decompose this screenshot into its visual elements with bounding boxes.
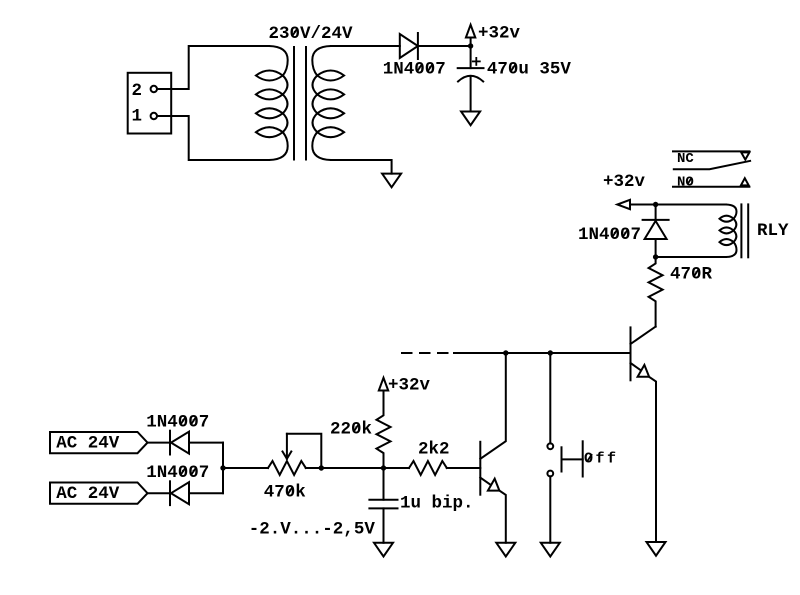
label 1N4007 (D1) — [383, 60, 446, 80]
transistor Q2 collector — [631, 327, 656, 344]
switch contact circle (top) — [547, 443, 553, 449]
svg-text:1N4007: 1N4007 — [578, 225, 641, 245]
junction dot (diode D4 bottom) — [653, 254, 658, 259]
+32v supply arrow (bottom) — [379, 378, 388, 394]
wire pot to main node — [306, 467, 384, 469]
svg-text:1N4007: 1N4007 — [146, 463, 209, 483]
svg-text:NO: NO — [677, 174, 694, 190]
transistor Q1 base bar — [479, 442, 481, 495]
svg-text:1N4007: 1N4007 — [146, 412, 209, 432]
diode D1 1N4007 (pointing right) — [400, 33, 418, 59]
wire D3 up to junction — [222, 468, 224, 493]
svg-text:1: 1 — [132, 107, 143, 127]
wire junction to pot — [223, 467, 268, 469]
connector X1 body — [128, 73, 172, 134]
junction dot (diode join) — [220, 465, 225, 470]
label 470k — [264, 482, 306, 502]
flag AC 24V (lower) — [50, 483, 148, 504]
potentiometer 470k zigzag — [268, 461, 306, 475]
svg-text:1u bip.: 1u bip. — [400, 494, 474, 514]
node +32v junction dot — [468, 43, 473, 48]
relay contact common arm — [674, 161, 750, 169]
label RLY — [757, 221, 789, 241]
svg-text:RLY: RLY — [757, 221, 789, 241]
label 1u bip. — [400, 494, 474, 514]
ground (transformer secondary) — [382, 174, 401, 188]
wire rail to Q2 base — [454, 352, 631, 354]
capacitor C1 470u 35V (polarized) — [458, 46, 484, 112]
wire D2 down to junction — [222, 443, 224, 468]
transistor Q1 emitter — [480, 478, 506, 543]
junction dot (diode D4 top) — [653, 202, 658, 207]
svg-text:+32v: +32v — [478, 24, 521, 44]
ground (C2) — [374, 543, 393, 557]
label pin 2 — [132, 81, 143, 101]
label Off — [584, 450, 619, 467]
svg-text:AC 24V: AC 24V — [56, 484, 120, 504]
ground (Q2 emitter) — [647, 542, 666, 556]
+32v supply arrow (top) — [466, 25, 475, 46]
wire secondary top to diode D1 — [331, 45, 400, 47]
junction dot (pot right) — [319, 465, 324, 470]
potentiometer wiper loop to right terminal — [287, 434, 321, 468]
relay RLY core — [741, 204, 748, 257]
label 220k — [330, 420, 372, 440]
transformer TR1 core — [294, 47, 306, 160]
switch actuator — [562, 441, 583, 476]
diode D2 1N4007 (pointing left) — [148, 431, 224, 455]
svg-text:2: 2 — [132, 81, 143, 101]
svg-text:2k2: 2k2 — [418, 440, 450, 460]
ground (Q1 emitter) — [496, 543, 515, 557]
label 1N4007 (D2) — [146, 412, 209, 432]
wire pin1 to transformer primary bottom — [157, 116, 269, 160]
ground (C1) — [461, 112, 480, 126]
svg-text:230V/24V: 230V/24V — [269, 24, 354, 44]
transistor Q1 collector — [480, 353, 506, 459]
svg-text:470u 35V: 470u 35V — [487, 60, 572, 80]
label AC 24V (upper) — [56, 434, 120, 454]
label 1N4007 (D4) — [578, 225, 641, 245]
label 470R — [670, 265, 713, 285]
potentiometer wiper arrow — [283, 434, 292, 459]
svg-text:220k: 220k — [330, 420, 372, 440]
svg-text:470k: 470k — [264, 482, 306, 502]
label +32v (relay) — [603, 172, 646, 192]
flag AC 24V (upper) — [50, 432, 148, 453]
+32v supply arrow (relay, pointing left) — [617, 200, 640, 209]
label +32v (top) — [478, 24, 521, 44]
svg-text:470R: 470R — [670, 265, 713, 285]
label 230V/24V — [269, 24, 354, 44]
transistor Q2 base bar — [630, 327, 632, 380]
transistor Q2 emitter — [631, 363, 657, 542]
switch contact circle (bottom) — [547, 471, 553, 477]
wire rail to switch — [549, 353, 551, 443]
svg-text:AC 24V: AC 24V — [56, 434, 120, 454]
junction dot (main node) — [381, 465, 386, 470]
wire switch to ground — [549, 476, 551, 542]
svg-text:+32v: +32v — [603, 172, 646, 192]
dashed wire stub — [402, 352, 448, 354]
resistor 470R (vertical zigzag) — [649, 257, 663, 327]
label AC 24V (lower) — [56, 484, 120, 504]
resistor 2k2 (horizontal zigzag) — [384, 461, 481, 475]
label -2.V...-2,5V — [249, 520, 376, 540]
junction dot (switch branch) — [548, 350, 553, 355]
wire pin2 to transformer primary top — [157, 46, 269, 89]
relay contact NC terminal triangle — [741, 152, 749, 159]
connector pin 2 circle — [151, 86, 157, 92]
diode D4 1N4007 (vertical, pointing up) — [643, 205, 669, 258]
label NO — [677, 174, 694, 190]
diode D3 1N4007 (pointing left) — [148, 481, 224, 505]
relay contact NO terminal triangle — [741, 178, 749, 185]
relay contact NO line — [673, 186, 749, 188]
ground (switch) — [541, 543, 560, 557]
relay contact NC line — [673, 150, 749, 152]
wire secondary bottom to ground — [331, 160, 392, 174]
junction dot (Q1 collector) — [503, 350, 508, 355]
wire D1 to +32v node — [418, 45, 471, 47]
svg-text:+32v: +32v — [388, 376, 431, 396]
label NC — [677, 151, 694, 167]
label 2k2 — [418, 440, 450, 460]
relay RLY coil winding — [720, 205, 737, 258]
transformer TR1 secondary winding — [312, 46, 344, 160]
label pin 1 — [132, 107, 143, 127]
resistor 220k (vertical zigzag) — [377, 394, 391, 468]
label 470u 35V — [487, 60, 572, 80]
label +32v (220k) — [388, 376, 431, 396]
label 1N4007 (D3) — [146, 463, 209, 483]
connector pin 1 circle — [151, 113, 157, 119]
svg-text:NC: NC — [677, 151, 694, 167]
transformer TR1 primary winding — [256, 46, 288, 160]
capacitor C2 1u bip. — [369, 468, 397, 543]
svg-text:-2.V...-2,5V: -2.V...-2,5V — [249, 520, 376, 540]
svg-text:1N4007: 1N4007 — [383, 60, 446, 80]
wire relay coil bottom — [656, 256, 726, 258]
wire +32v arrow to relay coil top — [640, 204, 726, 206]
